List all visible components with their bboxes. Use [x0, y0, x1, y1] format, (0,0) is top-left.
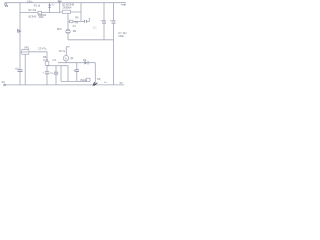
svg-text:100u: 100u [118, 34, 124, 38]
svg-text:8ohm: 8ohm [81, 78, 88, 82]
svg-text:10n: 10n [93, 26, 98, 29]
svg-text:R5: R5 [75, 16, 79, 20]
svg-text:4.7k: 4.7k [43, 58, 49, 62]
svg-text:0V: 0V [120, 81, 123, 85]
svg-text:100k: 100k [39, 17, 45, 19]
svg-text:D2: D2 [83, 58, 87, 62]
svg-text:BC549: BC549 [29, 16, 37, 19]
svg-text:C2: C2 [73, 24, 77, 28]
svg-text:0V: 0V [2, 80, 5, 84]
svg-text:SP: SP [97, 77, 101, 81]
svg-text:2N3904: 2N3904 [62, 6, 72, 10]
svg-text:100n: 100n [27, 0, 33, 3]
svg-text:R2 47k: R2 47k [29, 9, 37, 12]
svg-text:R1 1k: R1 1k [34, 5, 41, 8]
svg-text:M1: M1 [73, 29, 77, 33]
svg-text:C4: C4 [53, 58, 57, 62]
svg-text:VR1: VR1 [24, 46, 30, 50]
svg-text:9V: 9V [5, 4, 8, 8]
svg-text:1w: 1w [104, 82, 107, 84]
svg-text:MIC: MIC [57, 27, 62, 31]
svg-text:C6 1u: C6 1u [59, 50, 66, 53]
svg-text:C3 47u: C3 47u [38, 47, 47, 51]
